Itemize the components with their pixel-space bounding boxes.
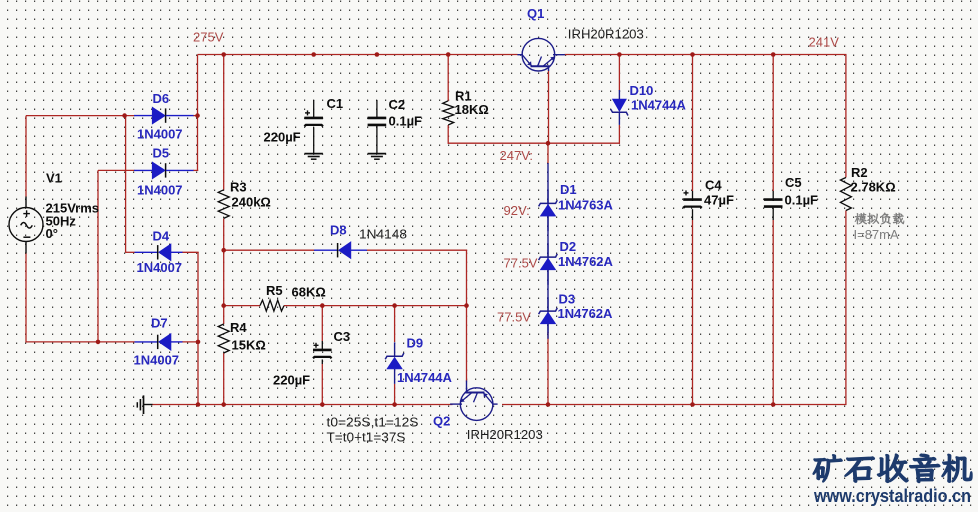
svg-text:C4: C4	[705, 178, 722, 193]
svg-text:47µF: 47µF	[704, 193, 734, 208]
svg-text:D8: D8	[330, 223, 347, 238]
svg-text:C5: C5	[785, 175, 802, 190]
svg-text:D2: D2	[560, 239, 577, 254]
svg-text:D4: D4	[153, 229, 170, 244]
svg-text:IRH20R1203: IRH20R1203	[568, 27, 644, 42]
svg-text:0.1µF: 0.1µF	[785, 193, 819, 208]
svg-text:1N4007: 1N4007	[137, 127, 183, 142]
svg-text:0.1µF: 0.1µF	[389, 114, 423, 129]
svg-text:1N4007: 1N4007	[134, 353, 180, 368]
svg-text:68KΩ: 68KΩ	[292, 285, 326, 300]
svg-text:Q2: Q2	[433, 414, 450, 429]
svg-text:241V: 241V	[809, 35, 840, 50]
svg-text:Q1: Q1	[527, 6, 544, 21]
svg-text:2.78KΩ: 2.78KΩ	[851, 180, 896, 195]
svg-text:R2: R2	[851, 165, 868, 180]
svg-text:1N4763A: 1N4763A	[558, 198, 614, 213]
svg-text:1N4007: 1N4007	[137, 183, 183, 198]
svg-text:1N4148: 1N4148	[359, 227, 407, 242]
svg-text:220µF: 220µF	[264, 130, 301, 145]
svg-text:D7: D7	[151, 316, 168, 331]
svg-text:D1: D1	[560, 182, 577, 197]
svg-text:D5: D5	[153, 146, 170, 161]
svg-text:I=87mA: I=87mA	[854, 227, 899, 242]
svg-text:R4: R4	[230, 320, 247, 335]
svg-text:t0=25S,t1=12S: t0=25S,t1=12S	[327, 415, 419, 430]
svg-text:1N4007: 1N4007	[137, 260, 183, 275]
svg-text:77.5V: 77.5V	[504, 256, 538, 271]
svg-text:D10: D10	[630, 83, 654, 98]
svg-text:1N4762A: 1N4762A	[558, 306, 614, 321]
svg-text:1N4744A: 1N4744A	[397, 370, 453, 385]
svg-text:D9: D9	[407, 336, 424, 351]
svg-text:275V: 275V	[193, 30, 224, 45]
svg-text:1N4762A: 1N4762A	[558, 254, 614, 269]
svg-text:92V:: 92V:	[504, 203, 530, 218]
svg-text:77.5V: 77.5V	[497, 310, 531, 325]
svg-text:D3: D3	[559, 292, 576, 307]
svg-text:18KΩ: 18KΩ	[455, 102, 489, 117]
svg-text:www.crystalradio.cn: www.crystalradio.cn	[813, 486, 971, 506]
svg-text:247V:: 247V:	[500, 148, 534, 163]
svg-text:220µF: 220µF	[273, 373, 310, 388]
svg-text:C3: C3	[334, 329, 351, 344]
svg-text:1N4744A: 1N4744A	[631, 98, 687, 113]
svg-text:IRH20R1203: IRH20R1203	[467, 427, 543, 442]
svg-text:C2: C2	[389, 97, 406, 112]
svg-text:0°: 0°	[46, 226, 58, 241]
svg-text:T=t0+t1=37S: T=t0+t1=37S	[327, 430, 406, 445]
svg-text:D6: D6	[153, 91, 170, 106]
svg-text:15KΩ: 15KΩ	[232, 338, 266, 353]
svg-text:240kΩ: 240kΩ	[232, 195, 271, 210]
svg-text:V1: V1	[46, 171, 62, 186]
svg-text:R3: R3	[230, 180, 247, 195]
svg-text:R5: R5	[266, 283, 283, 298]
svg-text:C1: C1	[327, 96, 344, 111]
